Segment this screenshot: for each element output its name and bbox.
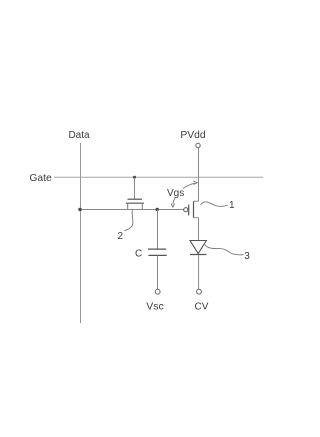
- wire Data vertical line: [80, 143, 82, 323]
- Vgs arrow to PVdd line: [183, 183, 195, 188]
- capacitor C top plate: [148, 248, 166, 250]
- svg-text:1: 1: [229, 200, 235, 211]
- diode D3 cathode bar: [190, 254, 206, 256]
- svg-text:3: 3: [244, 251, 250, 262]
- transistor U1 source jog: [194, 217, 199, 219]
- junction storage node A: [156, 208, 159, 211]
- svg-text:Gate: Gate: [29, 173, 52, 184]
- transistor Q2 source leg: [127, 203, 129, 209]
- wire T2 gate lead: [134, 178, 136, 200]
- wire capacitor top lead: [157, 210, 159, 249]
- svg-text:Vsc: Vsc: [146, 301, 164, 313]
- transistor U1 channel bar: [193, 201, 195, 218]
- wire PVdd vertical to transistor 1 drain: [198, 148, 200, 201]
- wire capacitor bottom lead: [157, 256, 159, 289]
- junction gate of T2 on Gate line: [133, 176, 136, 179]
- svg-text:C: C: [135, 249, 142, 260]
- transistor Q2 channel bar: [126, 202, 144, 204]
- transistor U1 gate bar: [188, 205, 190, 216]
- terminal Vsc circle: [155, 289, 160, 294]
- terminal CV circle: [197, 289, 202, 294]
- wire row from Data to T1 gate bubble: [80, 209, 184, 211]
- transistor Q2 drain leg: [141, 203, 143, 209]
- diode D3 triangle: [190, 241, 206, 254]
- transistor U1 drain jog: [194, 200, 199, 202]
- Vgs arrow to gate wire: [173, 197, 176, 204]
- svg-text:CV: CV: [195, 302, 209, 313]
- transistor U1 gate bubble: [184, 208, 188, 212]
- leader for label 3: [205, 245, 244, 255]
- wire Gate horizontal line: [54, 176, 263, 178]
- svg-text:PVdd: PVdd: [180, 130, 205, 141]
- svg-text:Data: Data: [68, 130, 90, 141]
- leader for label 2: [124, 210, 133, 231]
- wire diode cathode down to CV terminal: [198, 255, 200, 289]
- transistor Q2 gate bar: [128, 198, 143, 200]
- svg-text:2: 2: [118, 231, 124, 242]
- terminal PVdd circle: [196, 143, 200, 147]
- junction on Data line: [78, 208, 81, 211]
- leader for label 1: [201, 202, 228, 206]
- wire T1 source down to diode anode: [198, 218, 200, 241]
- capacitor C bottom plate: [148, 254, 166, 256]
